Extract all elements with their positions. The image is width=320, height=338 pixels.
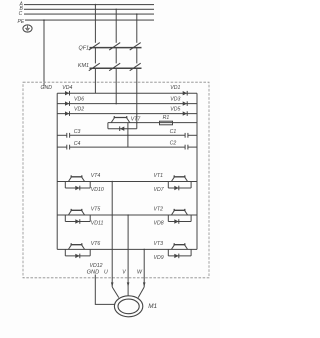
svg-text:C: C <box>19 11 23 17</box>
diode VD6 <box>65 101 70 106</box>
wire phase A between QF1 and KM1 <box>94 48 96 64</box>
wire phase B between QF1 and KM1 <box>115 48 117 64</box>
wire inverter row 2 (phase V) <box>57 214 197 216</box>
wire GND to motor frame <box>95 275 115 305</box>
wire rectifier row 3 <box>57 113 197 115</box>
wire phase C vertical (top) <box>136 14 138 43</box>
motor M1 <box>114 296 142 317</box>
net C feed line <box>24 13 154 15</box>
svg-text:VD11: VD11 <box>91 220 104 226</box>
transistor VT6 <box>68 243 84 249</box>
wire rectifier row 2 <box>57 103 197 105</box>
capacitor C3 <box>67 133 70 138</box>
wire phase B vertical (top) <box>115 9 117 43</box>
wire phase A vertical (top) <box>94 5 96 43</box>
svg-text:M1: M1 <box>148 303 157 310</box>
svg-text:VD9: VD9 <box>154 255 164 261</box>
svg-text:VT1: VT1 <box>154 173 164 179</box>
junction PE line / PE drop <box>43 19 45 21</box>
transistor VT2 <box>171 209 187 215</box>
junction A line / phase A drop <box>95 4 97 6</box>
wire phase A into rectifier <box>94 68 96 93</box>
junction VT7 row / phase C <box>136 122 138 124</box>
arrow W <box>143 282 146 287</box>
wire brake chopper row <box>108 122 197 124</box>
svg-text:PE: PE <box>18 19 25 25</box>
junction B line / phase B drop <box>115 9 117 11</box>
diode VD9 <box>168 249 191 258</box>
junction midpoint / cap row 1 <box>127 135 129 137</box>
diode VD11 <box>65 215 90 224</box>
capacitor C2 <box>185 145 188 150</box>
transistor VT7 <box>111 116 130 123</box>
transistor VT4 <box>68 175 84 181</box>
arrow V <box>127 282 130 287</box>
wire capacitor row 2 <box>57 146 197 148</box>
junction C line / phase C drop <box>136 13 138 15</box>
svg-text:VD12: VD12 <box>90 263 103 269</box>
diode VD10 <box>65 182 90 191</box>
svg-text:VT3: VT3 <box>154 241 164 247</box>
diode VD2 <box>65 111 70 116</box>
diode VD5 <box>183 111 188 116</box>
VT7 freewheel diode loop <box>108 123 137 131</box>
wire output U vertical <box>111 182 113 288</box>
positive DC bus (right) <box>196 93 198 249</box>
transistor VT3 <box>171 243 187 249</box>
svg-text:VD8: VD8 <box>154 220 164 226</box>
wire U into motor <box>112 287 119 298</box>
wire W into motor <box>138 287 144 298</box>
circuit breaker QF1 <box>89 43 142 51</box>
svg-text:VD1: VD1 <box>170 85 180 91</box>
svg-text:GND: GND <box>87 270 100 276</box>
svg-text:VD2: VD2 <box>74 107 84 113</box>
svg-text:VD6: VD6 <box>74 97 84 103</box>
net B feed line <box>24 8 154 10</box>
wire DC-link midpoint vertical <box>127 123 129 148</box>
net A feed line <box>24 4 154 6</box>
resistor R1 <box>160 121 173 125</box>
diode VD8 <box>168 215 191 224</box>
svg-text:GND: GND <box>41 85 53 91</box>
junction row1 / U output <box>111 181 113 183</box>
diode VD12 <box>65 249 90 258</box>
svg-text:QF1: QF1 <box>79 45 89 51</box>
svg-text:C4: C4 <box>74 141 81 147</box>
svg-text:VD4: VD4 <box>62 85 72 91</box>
junction row3 / W output <box>143 249 145 251</box>
earth symbol <box>23 25 32 32</box>
svg-text:U: U <box>104 269 108 275</box>
wire output V vertical <box>127 215 129 296</box>
wire rectifier row 1 <box>57 92 197 94</box>
wire inverter row 3 (phase W) <box>57 248 197 250</box>
svg-text:V: V <box>122 269 126 275</box>
svg-text:VD7: VD7 <box>154 187 165 193</box>
net PE feed line <box>25 19 154 21</box>
converter enclosure (dashed boundary) <box>23 82 209 278</box>
wire phase C between QF1 and KM1 <box>136 48 138 64</box>
svg-text:VT6: VT6 <box>91 241 101 247</box>
junction phase B / row 2 <box>115 103 117 105</box>
svg-text:VT2: VT2 <box>154 207 164 213</box>
wire phase C into rectifier <box>136 68 138 122</box>
wire PE drop to enclosure GND <box>43 20 45 86</box>
transistor VT5 <box>68 209 84 215</box>
svg-text:KM1: KM1 <box>78 63 89 69</box>
negative DC bus (left) <box>56 93 58 249</box>
wire inverter row 1 (phase U) <box>57 181 197 183</box>
junction row2 / V output <box>127 214 129 216</box>
svg-text:C3: C3 <box>74 129 81 135</box>
wire output W vertical <box>143 249 145 287</box>
svg-text:VT4: VT4 <box>91 173 101 179</box>
svg-text:VD5: VD5 <box>170 107 180 113</box>
diode VD1 <box>183 91 188 96</box>
svg-text:R1: R1 <box>163 115 170 121</box>
svg-text:C2: C2 <box>170 141 177 147</box>
diode VD4 <box>65 91 70 96</box>
contactor KM1 <box>89 63 142 70</box>
svg-text:VD10: VD10 <box>91 187 104 193</box>
diode VD3 <box>183 101 188 106</box>
svg-text:C1: C1 <box>170 129 177 135</box>
svg-text:VT5: VT5 <box>91 207 101 213</box>
wire capacitor row 1 <box>57 134 197 136</box>
junction phase C / row 3 <box>136 113 138 115</box>
wire phase B into rectifier <box>115 68 117 103</box>
transistor VT1 <box>171 175 187 181</box>
arrow U <box>111 282 114 287</box>
svg-text:VT7: VT7 <box>131 116 142 122</box>
capacitor C1 <box>185 133 188 138</box>
svg-text:VD3: VD3 <box>170 97 180 103</box>
capacitor C4 <box>67 145 70 150</box>
diode VD7 <box>168 182 191 191</box>
